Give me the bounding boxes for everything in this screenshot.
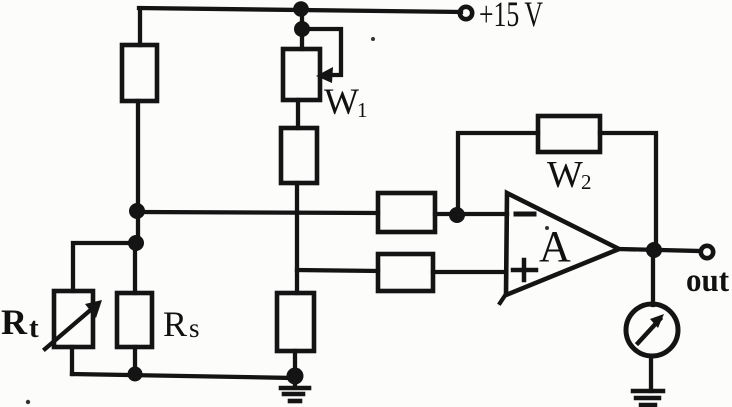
wire Rt bottom (70, 347, 74, 374)
op-amp minus sign (516, 212, 534, 217)
resistor amp non-inverting input (378, 254, 433, 291)
wire amp output (619, 249, 700, 251)
resistor amp inverting input (378, 193, 435, 232)
resistor left bridge arm (122, 45, 157, 101)
node W1 top junction (294, 21, 310, 37)
svg-text:s: s (189, 313, 200, 343)
resistor Rs (117, 293, 152, 347)
op-amp A (506, 193, 619, 295)
wiper arrowhead W1 (316, 67, 333, 83)
wire to non-inverting input (433, 270, 506, 274)
wire to inverting input (435, 212, 507, 216)
speck bottom left (26, 400, 30, 404)
resistor bridge lower arm (277, 293, 314, 351)
svg-text:1: 1 (357, 98, 368, 122)
svg-text:+15 V: +15 V (479, 0, 543, 34)
wire Rs drop (133, 243, 137, 293)
node feedback junction (449, 207, 465, 223)
wire left column (136, 101, 140, 243)
meter needle (638, 319, 660, 343)
wire middle column (295, 183, 299, 293)
terminal out (701, 246, 713, 258)
wire bottom rail (72, 374, 295, 378)
ground right (633, 391, 663, 405)
meter needle arrowhead (650, 314, 664, 328)
resistor middle bridge arm (281, 128, 317, 183)
wire plus branch (297, 270, 378, 271)
potentiometer W1 (283, 49, 320, 100)
node Rt branch (128, 235, 144, 251)
svg-text:A: A (539, 222, 571, 271)
thermistor Rt arrow (45, 307, 94, 349)
wire W1 to lower resistor (296, 100, 300, 128)
thermistor Rt body (54, 291, 93, 347)
svg-text:2: 2 (581, 170, 592, 194)
ground middle (281, 388, 309, 401)
wire top rail (139, 8, 461, 12)
terminal +15V (460, 7, 472, 19)
svg-text:R: R (1, 302, 28, 342)
wire meter to ground (649, 356, 653, 391)
node output junction (646, 242, 662, 258)
wire feedback up (458, 133, 538, 215)
wire W1 wiper loop (303, 29, 341, 75)
speck above A (545, 226, 549, 230)
svg-text:W: W (324, 82, 359, 123)
wire feedback right (600, 133, 656, 250)
wire rail to W1 (300, 9, 304, 49)
thermistor Rt arrowhead (85, 300, 102, 318)
wire bridge output to amp input resistor (137, 212, 378, 213)
wire Rs bottom (133, 347, 137, 375)
node bridge left output (129, 203, 145, 219)
svg-text:R: R (163, 304, 187, 344)
svg-text:W: W (547, 154, 583, 196)
speck near rail (371, 37, 375, 41)
node top rail junction (293, 1, 309, 17)
meter M (626, 304, 678, 356)
node ground junction blob (287, 368, 304, 385)
wire output to meter (651, 250, 655, 305)
node bottom rail junction (128, 367, 143, 382)
wire lower arm to ground (293, 351, 297, 385)
svg-text:out: out (686, 263, 729, 299)
op-amp plus sign (513, 268, 536, 273)
potentiometer W2 (538, 116, 600, 152)
wire left column drop from rail (138, 9, 142, 45)
svg-text:t: t (29, 312, 39, 344)
wire Rt branch left (73, 243, 136, 291)
